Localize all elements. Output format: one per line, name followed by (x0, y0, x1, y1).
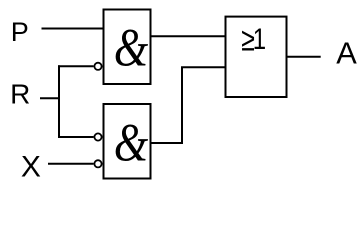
wire X input to U2 inverted input 2 (48, 163, 94, 165)
svg-text:&: & (114, 112, 149, 172)
OR gate U3 box (226, 17, 287, 97)
svg-text:A: A (336, 36, 357, 71)
svg-text:&: & (114, 17, 149, 77)
inversion bubble U2 input 2 (94, 160, 101, 167)
wire R input to bus node (40, 97, 59, 99)
svg-text:R: R (10, 79, 30, 110)
inversion bubble U1 input 2 (94, 63, 101, 70)
AND gate U1 box (104, 10, 151, 85)
wire U1 output to OR gate U3 (151, 35, 226, 37)
inversion bubble U2 input 1 (94, 133, 101, 140)
vertical bus wire node R (58, 65, 60, 138)
wire U3 output to A (287, 56, 321, 58)
svg-text:1: 1 (253, 22, 266, 56)
svg-text:X: X (21, 151, 41, 184)
AND gate U2 box (104, 104, 151, 179)
svg-text:P: P (11, 17, 29, 47)
wire bus to U1 inverted input (58, 65, 94, 67)
wire U2 output to OR gate U3 (151, 67, 226, 143)
wire P input to AND gate U1 (42, 28, 104, 30)
wire bus to U2 inverted input 1 (58, 136, 94, 138)
